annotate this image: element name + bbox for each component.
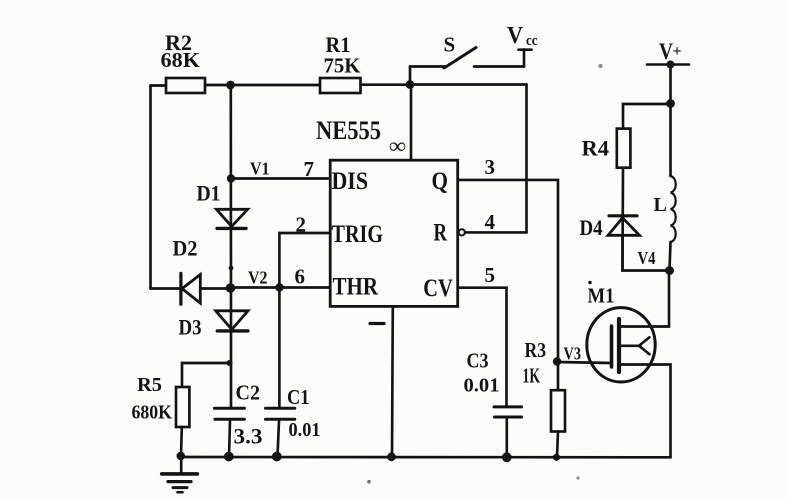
wire R2 left lead [151,84,167,87]
wire vertical to pin 8 [410,85,413,161]
inductor L [670,104,676,271]
svg-text:68K: 68K [161,48,201,72]
svg-text:3.3: 3.3 [234,424,263,449]
ground [162,456,198,492]
svg-text:D3: D3 [179,315,202,340]
svg-text:Q: Q [432,168,449,195]
svg-text:V: V [507,23,524,49]
svg-text:3: 3 [485,155,496,179]
svg-text:7: 7 [304,157,315,181]
svg-text:C1: C1 [287,385,310,409]
wire THR pin from V2 [231,286,331,289]
svg-text:0.01: 0.01 [464,375,500,397]
wire left rail vertical [149,86,152,289]
node C3 rail junction [502,452,512,462]
svg-text:M1: M1 [588,284,615,308]
wire pin 3 Q output [458,180,558,362]
node V1 [227,174,235,182]
wire V+ down [669,65,672,104]
diode D3 [216,311,248,331]
wire bottom ground rail [181,456,671,459]
svg-text:6: 6 [295,265,306,289]
svg-text:R: R [434,219,448,246]
node R3 rail junction [553,454,560,461]
wire branch to R5 [182,363,230,387]
resistor R2 [166,78,205,93]
wire V4 to drain [620,271,670,327]
wire center vertical rail [229,85,232,331]
wire V2 down to C1 [278,288,281,407]
op-amp/timer U1 NE555 box [330,160,458,306]
node V4 [665,266,674,275]
wire pin 4 to Vcc drop [465,231,527,234]
svg-text:C2: C2 [236,381,261,405]
svg-text:V3: V3 [564,344,582,364]
svg-text:C3: C3 [467,349,489,373]
wire DIS pin to V1 node [231,177,330,180]
svg-text:D2: D2 [173,236,198,261]
svg-text:5: 5 [485,263,496,287]
node small fleck on rail [229,266,234,271]
svg-text:S: S [444,33,456,57]
svg-text:DIS: DIS [332,168,369,195]
svg-text:TRIG: TRIG [332,221,384,248]
svg-text:+: + [673,43,682,60]
wire branch to R4 [623,104,671,129]
svg-text:L: L [654,194,667,216]
transistor M1 [587,308,655,382]
svg-text:V2: V2 [248,268,268,288]
node C2 rail junction [224,452,234,462]
node ground junction [177,452,186,461]
wire TRIG pin branch [279,233,330,288]
svg-text:680K: 680K [132,402,173,424]
wire pin 5 CV [458,288,507,406]
svg-text:D1: D1 [197,181,221,206]
node V3 [553,357,561,365]
wire rail to pin4 drop [410,83,527,86]
node pin1 rail junction [387,452,396,461]
svg-text:R4: R4 [582,136,610,161]
svg-text:R3: R3 [525,338,547,362]
fleck specks [588,281,592,285]
diode D4 [608,216,640,236]
pin 1 minus mark [370,322,384,325]
wire D3 to C2 branch [230,331,233,407]
resistor R3 [551,390,565,431]
svg-text:4: 4 [485,210,496,234]
capacitor C2 [214,408,244,456]
svg-text:1K: 1K [523,364,541,388]
svg-text:NE555: NE555 [316,116,381,145]
diode D2 [151,273,231,304]
wire R4 to D4 [621,168,624,271]
capacitor C1 [266,408,295,456]
resistor R1 [320,78,361,93]
svg-text:V4: V4 [638,248,656,268]
wire R3 to rail [557,432,558,458]
svg-text:THR: THR [333,274,379,301]
svg-text:0.01: 0.01 [289,419,321,441]
node junction under switch [406,80,415,89]
wire gate from V3 [557,362,612,363]
node R5 branch [227,360,233,366]
svg-text:∞: ∞ [389,133,406,158]
svg-text:cc: cc [526,33,538,49]
node R4 branch junction [666,99,675,108]
svg-text:D4: D4 [580,215,603,240]
pin 4 R open circle [459,229,465,235]
svg-text:V: V [659,39,673,64]
capacitor C3 [494,407,522,457]
resistor R5 [176,387,189,427]
svg-text:V1: V1 [250,159,270,179]
power V+ [647,61,689,69]
svg-text:CV: CV [423,275,453,302]
wire pin 1 to ground rail [391,306,394,457]
node C1 rail junction [272,452,282,462]
wire R1 right lead [361,83,411,86]
wire V3 to R3 [557,362,560,391]
wire R2 to R1 rail [205,84,320,87]
node junction top-left [226,81,235,90]
svg-text:75K: 75K [324,54,362,78]
wire vertical to pin 4 [525,85,528,233]
node V2 [226,283,236,293]
wire D4 to V4 [623,235,670,270]
wire source to right rail down [621,365,671,458]
node TRIG branch junction [275,283,283,291]
switch S [410,48,532,85]
wire R5 to ground rail [180,427,183,456]
svg-text:2: 2 [296,213,307,237]
resistor R4 [617,129,631,168]
diode D1 [216,209,247,228]
svg-text:R5: R5 [137,374,162,396]
